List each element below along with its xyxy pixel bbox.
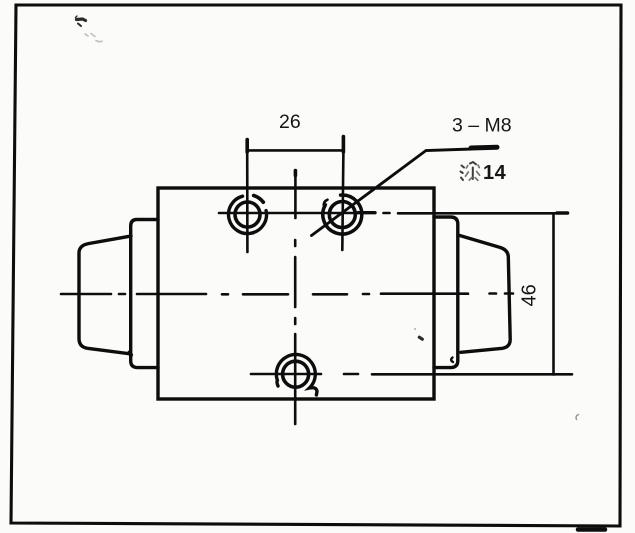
speck bottom right <box>576 415 578 420</box>
top holes horizontal centerline <box>219 211 568 214</box>
left boss (trapezoid) <box>79 236 131 354</box>
border scan blob bottom-right <box>578 527 605 532</box>
smudge mark top-left dark <box>76 16 86 26</box>
hole H1 thread arc <box>229 196 267 233</box>
hole H2 thread arc <box>323 195 362 234</box>
svg-text:26: 26 <box>279 111 301 133</box>
svg-text:46: 46 <box>519 284 541 306</box>
right boss (trapezoid) <box>458 235 510 352</box>
valve body rectangle <box>158 188 434 399</box>
smudge mark top-left light <box>85 34 102 42</box>
main horizontal centerline <box>61 292 513 295</box>
svg-text:3 – M8: 3 – M8 <box>452 115 512 137</box>
bottom hole horizontal centerline <box>251 373 572 376</box>
dimension 46 vertical line <box>552 214 555 375</box>
right collar <box>434 217 458 368</box>
dimension 26 line <box>247 149 343 152</box>
left flange junction blob <box>130 353 132 356</box>
left collar <box>131 220 158 368</box>
hole H2 arc flick <box>324 200 328 206</box>
hole H3 thread arc with tail <box>276 355 317 395</box>
hole H3 bottom: inner circle <box>283 361 309 387</box>
right flange junction hook <box>451 358 453 363</box>
vertical body centerline <box>293 171 297 425</box>
svg-text:14: 14 <box>483 162 507 184</box>
dim 26 left extension / hole centerline <box>245 140 249 153</box>
hole H1 top-left: inner circle <box>235 202 260 227</box>
speck near body right <box>419 337 422 339</box>
leader thick end <box>471 145 497 151</box>
leader line to hole H2 <box>312 149 473 236</box>
dim 26 right extension / hole centerline <box>342 137 346 153</box>
degraded character Shen (depth) <box>461 162 480 180</box>
hole H1 arc flick <box>254 196 264 203</box>
hole H2 top-right: inner circle <box>329 202 355 228</box>
